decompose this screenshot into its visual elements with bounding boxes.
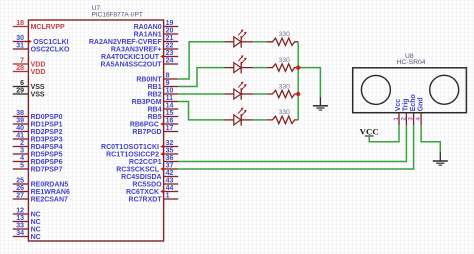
svg-text:13: 13 [16, 215, 24, 222]
wire RB0INT to D1 [178, 42, 224, 79]
pin 14 RB4 (U7 right) [148, 103, 179, 114]
pin 23 RA4T0CKIC1OUT (U7 right) [101, 50, 178, 61]
pin 15 RB5 (U7 right) [148, 110, 179, 121]
pin 4 Gnd (U8) [415, 97, 424, 125]
pin 7 VDD (U7 left) [13, 58, 46, 69]
svg-text:Vcc: Vcc [395, 99, 402, 112]
pin 10 RB2 (U7 right) [148, 88, 179, 99]
wire D4 cathode to R4 [253, 119, 267, 121]
pin 31 OSC2CLKO (U7 left) [13, 43, 70, 54]
svg-text:NC: NC [31, 234, 41, 241]
resistor R3 330 [267, 83, 298, 97]
wire RB2 to D3 [178, 93, 224, 95]
svg-text:RB5: RB5 [148, 114, 162, 121]
svg-text:28: 28 [16, 65, 24, 72]
wire ground bus vertical [297, 42, 299, 120]
svg-text:31: 31 [16, 43, 24, 50]
pin 37 RC3SCKSCL (U7 right) [116, 163, 178, 174]
U7 value label PIC16F877A-I/PT [92, 11, 143, 18]
svg-text:30: 30 [16, 35, 24, 42]
svg-text:3: 3 [20, 148, 24, 155]
svg-text:NC: NC [31, 219, 41, 226]
resistor R1 330 [267, 31, 298, 45]
svg-text:2: 2 [20, 140, 24, 147]
svg-text:MCLRVPP: MCLRVPP [31, 24, 65, 31]
wire D3 cathode to R3 [253, 93, 267, 95]
svg-text:VCC: VCC [360, 127, 379, 137]
svg-text:17: 17 [166, 125, 174, 132]
junction node bus/R2 [296, 65, 300, 69]
resistor R4 330 [267, 109, 298, 123]
svg-text:RB2: RB2 [148, 92, 162, 99]
pin 22 RA3AN3VREF+ (U7 right) [111, 43, 178, 54]
svg-text:RD6PSP6: RD6PSP6 [31, 159, 63, 166]
svg-text:OSC1CLKI: OSC1CLKI [33, 39, 68, 46]
ground (LED bus) [313, 97, 328, 110]
svg-text:18: 18 [16, 20, 24, 27]
svg-text:RD7PSP7: RD7PSP7 [31, 167, 63, 174]
svg-text:RE2CSAN7: RE2CSAN7 [31, 197, 68, 204]
svg-text:11: 11 [166, 95, 174, 102]
pin 42 RC4SDISDA (U7 right) [121, 170, 178, 181]
U7 reference label [92, 5, 101, 12]
wire RB3PGM to D4 [178, 102, 224, 120]
pin 1 RC7RXDT (U7 right) [129, 193, 179, 204]
svg-text:RC5SDO: RC5SDO [132, 182, 162, 189]
svg-text:NC: NC [31, 212, 41, 219]
LED D3 [225, 82, 254, 100]
pin 3 RD5PSP5 (U7 left) [13, 148, 63, 159]
pin 34 NC (U7 left) [13, 230, 41, 241]
wire RC2CCP1 to Trig [178, 125, 406, 161]
svg-text:RA5AN4SSC2OUT: RA5AN4SSC2OUT [101, 62, 163, 69]
svg-text:1: 1 [393, 117, 400, 121]
pin 13 NC (U7 left) [13, 215, 41, 226]
pin 2 Trig (U8) [401, 98, 410, 125]
svg-text:43: 43 [166, 178, 174, 185]
svg-text:VDD: VDD [31, 69, 46, 76]
svg-text:RD2PSP2: RD2PSP2 [31, 129, 63, 136]
svg-text:RD1PSP1: RD1PSP1 [31, 122, 63, 129]
pin 5 RD7PSP7 (U7 left) [13, 163, 63, 174]
svg-text:RD3PSP3: RD3PSP3 [31, 137, 63, 144]
pin 38 RD0PSP0 (U7 left) [13, 110, 63, 121]
U8 value label HC-SR04 [397, 59, 426, 66]
sensor U8 HC-SR04 body [353, 68, 467, 113]
wire RB1 to D2 [178, 68, 224, 87]
svg-text:RC1T1OSICCP2: RC1T1OSICCP2 [106, 152, 159, 159]
svg-text:2: 2 [401, 117, 408, 121]
pin 21 RA2AN2VREF-CVREF (U7 right) [89, 35, 178, 46]
svg-text:Echo: Echo [410, 94, 417, 111]
wire Gnd pin to ground [421, 125, 440, 153]
pin 41 RD3PSP3 (U7 left) [13, 133, 63, 144]
svg-text:RB7PGD: RB7PGD [132, 129, 161, 136]
pin 26 RE1WRAN6 (U7 left) [13, 185, 70, 196]
svg-text:RC0T1OSOT1CKI: RC0T1OSOT1CKI [101, 144, 159, 151]
svg-text:23: 23 [166, 50, 174, 57]
svg-text:27: 27 [16, 193, 24, 200]
svg-text:9: 9 [166, 80, 170, 87]
svg-text:RC2CCP1: RC2CCP1 [129, 159, 162, 166]
wire VCC to U8 Vcc pin [369, 125, 399, 141]
svg-text:330: 330 [279, 83, 290, 90]
svg-text:41: 41 [16, 133, 24, 140]
svg-text:44: 44 [166, 185, 174, 192]
svg-text:RA3AN3VREF+: RA3AN3VREF+ [111, 47, 162, 54]
pin 16 RB6PGC (U7 right) [130, 118, 178, 129]
svg-text:19: 19 [166, 20, 174, 27]
pin 33 NC (U7 left) [13, 223, 41, 234]
svg-text:16: 16 [166, 118, 174, 125]
pin 27 RE2CSAN7 (U7 left) [13, 193, 68, 204]
pin 2 RD4PSP4 (U7 left) [13, 140, 63, 151]
pin 6 VSS (U7 left) [13, 80, 45, 91]
svg-text:39: 39 [16, 118, 24, 125]
svg-text:8: 8 [166, 73, 170, 80]
svg-text:25: 25 [16, 178, 24, 185]
pin 30 OSC1CLKI (U7 left) [13, 35, 69, 46]
svg-text:NC: NC [31, 227, 41, 234]
svg-text:330: 330 [279, 31, 290, 38]
pin 39 RD1PSP1 (U7 left) [13, 118, 63, 129]
svg-text:RC3SCKSCL: RC3SCKSCL [116, 167, 160, 174]
svg-text:32: 32 [166, 140, 174, 147]
svg-text:RB6PGC: RB6PGC [130, 122, 159, 129]
resistor R2 330 [267, 57, 298, 71]
junction node bus/R3 [296, 92, 300, 96]
svg-text:12: 12 [16, 208, 24, 215]
LED D4 [225, 108, 254, 126]
svg-text:14: 14 [166, 103, 174, 110]
pin 18 MCLRVPP (U7 left) [13, 20, 65, 31]
pin 3 Echo (U8) [408, 94, 417, 125]
U8 reference label [405, 53, 414, 60]
svg-text:37: 37 [166, 163, 174, 170]
svg-text:4: 4 [415, 117, 422, 121]
svg-text:1: 1 [166, 193, 170, 200]
svg-text:RB1: RB1 [148, 84, 162, 91]
LED D1 [225, 29, 254, 47]
pin 29 VSS (U7 left) [13, 88, 45, 99]
svg-text:VSS: VSS [31, 84, 45, 91]
svg-text:RA0AN0: RA0AN0 [134, 24, 162, 31]
svg-text:21: 21 [166, 35, 174, 42]
pin 24 RA5AN4SSC2OUT (U7 right) [101, 58, 179, 69]
ground (U8 Gnd) [433, 152, 448, 165]
pin 1 Vcc (U8) [393, 99, 402, 126]
svg-text:42: 42 [166, 170, 174, 177]
svg-text:VDD: VDD [31, 62, 46, 69]
svg-text:22: 22 [166, 43, 174, 50]
svg-text:RA1AN1: RA1AN1 [134, 32, 162, 39]
pin 36 RC2CCP1 (U7 right) [129, 155, 178, 166]
svg-text:15: 15 [166, 110, 174, 117]
pin 8 RB0INT (U7 right) [136, 73, 178, 84]
svg-text:35: 35 [166, 148, 174, 155]
IC U7 PIC16F877A-I/PT body [28, 20, 163, 241]
wire D1 cathode to R1 [253, 41, 267, 43]
svg-text:29: 29 [16, 88, 24, 95]
pin 43 RC5SDO (U7 right) [132, 178, 178, 189]
svg-text:RA2AN2VREF-CVREF: RA2AN2VREF-CVREF [89, 39, 162, 46]
pin 17 RB7PGD (U7 right) [132, 125, 178, 136]
svg-text:OSC2CLKO: OSC2CLKO [31, 47, 70, 54]
svg-text:33: 33 [16, 223, 24, 230]
pin 9 RB1 (U7 right) [148, 80, 179, 91]
svg-text:RC7RXDT: RC7RXDT [129, 197, 163, 204]
pin 20 RA1AN1 (U7 right) [134, 28, 179, 39]
svg-text:RD4PSP4: RD4PSP4 [31, 144, 63, 151]
svg-text:RB4: RB4 [148, 107, 162, 114]
svg-text:330: 330 [279, 109, 290, 116]
svg-text:38: 38 [16, 110, 24, 117]
svg-text:RC4SDISDA: RC4SDISDA [121, 174, 161, 181]
svg-text:RC6TXCK: RC6TXCK [126, 189, 159, 196]
pin 32 RC0T1OSOT1CKI (U7 right) [101, 140, 178, 151]
pin 40 RD2PSP2 (U7 left) [13, 125, 63, 136]
pin 4 RD6PSP6 (U7 left) [13, 155, 63, 166]
svg-text:330: 330 [279, 57, 290, 64]
svg-text:24: 24 [166, 58, 174, 65]
wire bus to ground [298, 68, 320, 99]
svg-text:36: 36 [166, 155, 174, 162]
svg-text:RE0RDAN5: RE0RDAN5 [31, 182, 69, 189]
svg-text:RB3PGM: RB3PGM [132, 99, 162, 106]
pin 44 RC6TXCK (U7 right) [126, 185, 178, 196]
svg-text:34: 34 [16, 230, 24, 237]
svg-text:10: 10 [166, 88, 174, 95]
svg-text:Trig: Trig [403, 98, 410, 111]
pin 35 RC1T1OSICCP2 (U7 right) [106, 148, 178, 159]
svg-text:20: 20 [166, 28, 174, 35]
pin 25 RE0RDAN5 (U7 left) [13, 178, 69, 189]
svg-text:RE1WRAN6: RE1WRAN6 [31, 189, 70, 196]
svg-text:RD0PSP0: RD0PSP0 [31, 114, 63, 121]
wire D2 cathode to R2 [253, 67, 267, 69]
pin 12 NC (U7 left) [13, 208, 41, 219]
svg-text:6: 6 [20, 80, 24, 87]
svg-text:RB0INT: RB0INT [136, 77, 162, 84]
svg-text:VSS: VSS [31, 92, 45, 99]
wire RC3SCKSCL to Echo [178, 125, 413, 169]
pin 11 RB3PGM (U7 right) [132, 95, 179, 106]
power VCC supply symbol [360, 127, 379, 137]
svg-text:PIC16F877A-I/PT: PIC16F877A-I/PT [92, 11, 143, 18]
svg-text:4: 4 [20, 155, 24, 162]
svg-text:Gnd: Gnd [417, 97, 424, 111]
svg-text:HC-SR04: HC-SR04 [397, 59, 426, 66]
svg-text:26: 26 [16, 185, 24, 192]
svg-text:RD5PSP5: RD5PSP5 [31, 152, 63, 159]
svg-text:5: 5 [20, 163, 24, 170]
svg-text:RA4T0CKIC1OUT: RA4T0CKIC1OUT [101, 54, 160, 61]
svg-text:7: 7 [20, 58, 24, 65]
svg-text:3: 3 [408, 117, 415, 121]
pin 19 RA0AN0 (U7 right) [134, 20, 179, 31]
svg-text:40: 40 [16, 125, 24, 132]
pin 28 VDD (U7 left) [13, 65, 46, 76]
LED D2 [225, 55, 254, 73]
